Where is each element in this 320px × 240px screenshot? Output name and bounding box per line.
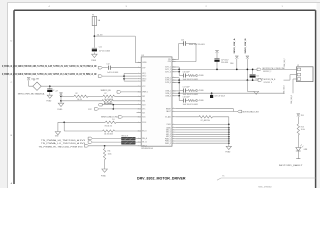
junction to C7 [49,85,51,87]
svg-text:GND_2: GND_2 [166,132,171,134]
svg-text:RN1 4.7k: RN1 4.7k [122,136,129,138]
svg-text:SP1: SP1 [142,96,145,98]
wire R11 to ground [104,160,106,170]
svg-text:3V3: 3V3 [112,119,115,121]
wire 24_V0 rail to GVDD [94,35,135,37]
resistor R8 snubber [188,75,195,77]
wire VM to fan junction [102,75,124,77]
svg-text:SCS: SCS [142,117,145,119]
svg-text:TN_PWMB_HI_TMC5160_PWM 3V3: TN_PWMB_HI_TMC5160_PWM 3V3 [39,146,83,148]
svg-text:GND_3: GND_3 [166,134,171,136]
resistor R12 OC_ADJ [199,116,213,118]
svg-text:C18 10nF: C18 10nF [183,97,190,99]
resistor R11 pulldown [104,146,106,149]
svg-text:10.0k: 10.0k [108,154,112,156]
svg-text:OUTB_2: OUTB_2 [165,80,171,82]
page edge lines [7,3,9,189]
off-page arrow SDO [98,103,102,106]
power flag SP ground [60,93,63,96]
svg-text:10nF 100-V 5% 0603: 10nF 100-V 5% 0603 [183,94,198,96]
svg-text:RESET: RESET [166,108,171,110]
svg-text:C10: C10 [181,40,184,42]
svg-text:VM_3: VM_3 [142,78,146,80]
wire SCLK row to left ground [58,121,105,123]
SDI stub [137,112,142,114]
wire LED to net stub [297,151,299,159]
svg-text:R13: R13 [301,126,304,128]
jog RESET to FAULT row [233,109,235,112]
wire R13 to LED [297,135,299,148]
resistor R10 snubber [188,100,195,102]
wire OC_ADJ [176,116,199,118]
svg-text:VM_2: VM_2 [142,76,146,78]
svg-text:C19 1uF 100-V: C19 1uF 100-V [214,96,226,98]
off-page connector PWM_HI [98,66,102,69]
ground PGND snubber [196,89,198,92]
capacitor C15 bulk electrolytic [252,69,254,74]
capacitor C12 [108,66,110,70]
svg-text:DRV8302_B: DRV8302_B [264,82,272,84]
IC U1 right pin stubs and labels [172,58,176,60]
off-page arrow INH_B [84,145,88,148]
resistor R2 [61,95,74,97]
wires RN to IC pins [122,137,142,139]
svg-text:VREF_1: VREF_1 [142,92,148,94]
ground GND drop left [57,122,59,131]
phase C output wire [179,68,257,70]
svg-text:TN_PWMA_LO_TMC5160_A 3V3: TN_PWMA_LO_TMC5160_A 3V3 [41,142,85,145]
ground PGND below C11 [93,52,95,54]
svg-text:N_PWMA_HI_24V0_SER IN_TMC5160_: N_PWMA_HI_24V0_SER IN_TMC5160_AMS_T-HT5V… [2,65,97,68]
wire SDO row [102,104,141,106]
svg-text:24V0_SW_C: 24V0_SW_C [284,57,286,67]
link to EN row [63,122,65,131]
svg-text:OUTB_3: OUTB_3 [165,82,171,84]
wire CPL riser [178,44,180,60]
svg-text:GND_1: GND_1 [166,130,171,132]
svg-text:C17 10nF: C17 10nF [183,87,190,89]
svg-text:DRV8302DCA: DRV8302DCA [141,147,153,150]
ground branch of phase B row [246,80,248,91]
svg-text:F1: F1 [92,14,94,16]
VM fan to VM pins [123,73,125,81]
svg-text:1uF 100-V: 1uF 100-V [221,60,229,62]
wires OUT pins to junction bar [172,66,179,68]
off-page arrow DTC [95,108,99,111]
svg-text:D2: D2 [33,80,35,82]
svg-text:SERVO_PWR_SEL SMAJ26CA: SERVO_PWR_SEL SMAJ26CA [18,92,45,95]
resistor network RN1 [122,137,136,140]
svg-text:SN1: SN1 [142,100,145,102]
ground PGND right [254,91,259,94]
svg-text:R2: R2 [76,93,78,95]
svg-text:C11: C11 [99,47,102,49]
ground PGND below C7 [49,92,51,95]
svg-text:R11: R11 [108,151,111,153]
svg-text:J2: J2 [297,65,299,67]
svg-text:PGND_2: PGND_2 [165,141,171,143]
link SDO to DTC row [112,105,114,109]
ground PGND snubber [196,74,198,77]
svg-text:C15: C15 [256,75,259,77]
capacitor C11 [92,47,97,49]
wire phase A riser into J2 [292,79,294,93]
connector J2 terminal block [297,67,314,82]
svg-text:R4 10k 1%: R4 10k 1% [105,126,113,128]
resistor R7 [103,95,115,97]
svg-text:OUTC_2: OUTC_2 [165,69,171,71]
power flag PVDD cap [216,50,219,53]
svg-text:N_PWMB_HI_24V0_SER IN_TMC5160_: N_PWMB_HI_24V0_SER IN_TMC5160_AMS_T-HT5V… [2,73,97,76]
capacitor C16 snubber [183,74,185,78]
wire DVDD row to bus [176,123,229,125]
svg-text:3V3: 3V3 [301,115,304,117]
resistor R4 [105,121,116,123]
svg-text:PGND_3: PGND_3 [165,143,171,145]
capacitor C7 electrolytic [49,86,51,88]
wire R4 to SCLK pin [116,121,141,123]
svg-text:PGND: PGND [91,60,97,62]
sheet border frame [14,9,316,11]
svg-text:SERVO1_FB: SERVO1_FB [101,90,112,92]
off-page arrow VREF [117,91,121,94]
wire R2 to R7 [88,95,103,97]
svg-text:10nF 100-V 5% 0603: 10nF 100-V 5% 0603 [183,104,198,106]
resistor R6 [102,100,113,102]
svg-text:PGND: PGND [57,109,63,111]
svg-text:PGND: PGND [101,175,107,177]
svg-text:10k 5% 0603: 10k 5% 0603 [104,134,113,136]
svg-text:INH_B: INH_B [142,145,146,147]
off-page arrow INH_A [88,137,92,140]
IC U1 DRV8302 body [141,57,172,146]
svg-text:CPH: CPH [168,61,171,63]
TVS diode D2 diamond [33,82,41,90]
svg-text:TN_PWMA_HI_TMC5160_A 3V3: TN_PWMA_HI_TMC5160_A 3V3 [41,139,85,142]
off-page arrow SCS [118,116,122,119]
IC U1 left pin stubs and labels [138,62,142,64]
capacitor C10 flying cap [179,43,184,45]
svg-text:R7: R7 [105,93,107,95]
wire RESET [176,108,234,110]
resistor network RN2 [122,141,136,144]
svg-text:VM_1: VM_1 [142,73,146,75]
wire phase C into J2 [262,68,297,70]
power flag 24V0_SERVO [27,78,30,81]
wire phase B riser into J2 [284,79,291,81]
wire CPH riser [195,44,197,62]
capacitor C19 on phase A [211,92,213,94]
svg-text:24V0_SW_B: 24V0_SW_B [244,38,247,54]
svg-text:OUTC_3: OUTC_3 [165,71,171,73]
off-page connector VM [98,75,102,78]
svg-text:24V0: 24V0 [230,63,234,65]
flag stem crossing rows [60,95,62,103]
off-page connector MOTOR_PH_B [258,79,262,82]
svg-text:DRV_8302_MOTOR_DRIVER: DRV_8302_MOTOR_DRIVER [137,177,186,181]
wire to VREF pin [121,91,141,93]
off-page arrow FAULT [238,110,242,113]
snubber stub down [178,83,180,91]
wire INH_B row [89,145,122,147]
wire DTC to pin [99,108,142,110]
svg-text:OUTC_1: OUTC_1 [165,67,171,69]
fuse F1 [92,16,96,25]
svg-text:10.0k: 10.0k [301,129,305,131]
wires OUT pins to junction bar [172,90,179,92]
wire C12 to VCP pin [111,67,141,69]
wires OUT pins to junction bar [172,77,179,79]
wire from fuse down to 24_V0 node [93,26,95,48]
capacitor C18 snubber [183,99,185,103]
snubber stub down [178,96,180,101]
ground PGND below flag [58,103,64,106]
resistor R13 [297,124,299,135]
svg-text:DRV8302_C: DRV8302_C [263,71,272,73]
wire FAULT [176,111,238,113]
ground PGND below R11 [102,169,108,172]
wire R5 to EN pin [115,130,142,132]
ground PGND snubber [196,99,198,102]
off-page connector MOTOR_PH_C [257,68,261,71]
ground PGND bus [226,146,231,149]
svg-text:C16 10nF: C16 10nF [183,72,190,74]
wire R7 to SP1 pin [115,95,142,97]
phase B output wire [179,79,258,81]
wire servo rail [28,80,30,86]
svg-text:VCP: VCP [142,67,145,69]
svg-text:GND_4: GND_4 [166,136,171,138]
wire 3V3 to R13 [297,116,299,124]
svg-text:PGND_1: PGND_1 [165,138,171,140]
wire to C12 [102,67,107,69]
wire SCS to pin [123,116,142,118]
svg-text:PGND: PGND [225,152,231,154]
resistor R9 snubber [188,90,195,92]
phase A output wire [179,92,284,94]
svg-text:100nF 16-V 5% 0603: 100nF 16-V 5% 0603 [189,44,205,46]
svg-text:24V0_SW_B: 24V0_SW_B [284,85,286,94]
resistor R5 [64,130,102,132]
wire R12 to ground bus [213,116,229,118]
capacitor C17 snubber [183,89,185,93]
svg-text:+C7: +C7 [55,91,58,93]
LED D3 [296,148,301,152]
svg-text:TM4C_DRV8302: TM4C_DRV8302 [258,187,272,188]
capacitor C20 PVDD [216,53,218,58]
svg-text:MOTOR1_FAULT: MOTOR1_FAULT [279,164,304,167]
svg-text:24V0_SW_A: 24V0_SW_A [233,38,236,54]
svg-text:MOTOR_FAULT_3V3: MOTOR_FAULT_3V3 [243,110,259,113]
page background [0,0,320,188]
ground bus wires [176,127,229,129]
svg-text:PGND: PGND [46,101,52,103]
wire R6 to SN1 pin [113,100,141,102]
svg-text:C12: C12 [106,63,109,65]
title block top line [221,177,316,179]
svg-text:20% 0805: 20% 0805 [221,62,228,64]
svg-text:OUTB_1: OUTB_1 [165,77,171,79]
ground bus vertical [228,124,230,146]
node 24_V0 [94,35,96,37]
power flag 3V3 [297,114,300,117]
svg-text:1uF 16-V 0603: 1uF 16-V 0603 [107,72,118,74]
svg-text:CPL: CPL [168,59,171,61]
svg-text:1uF 25-V 0603: 1uF 25-V 0603 [99,51,110,53]
off-page arrow INL_A [88,141,92,144]
svg-text:SCLK: SCLK [142,122,146,124]
svg-text:MOTOR_PH_B: MOTOR_PH_B [264,79,276,81]
wire SN1 row [61,100,102,102]
snubber stub down [178,72,180,76]
